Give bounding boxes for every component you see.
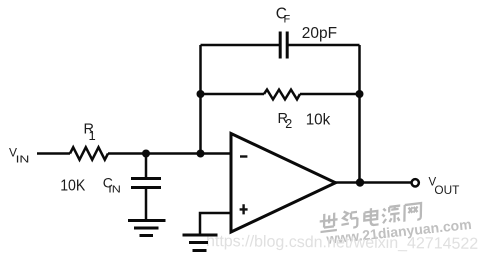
svg-text:https://blog.csdn.net/weixin_4: https://blog.csdn.net/weixin_42714522 bbox=[206, 233, 478, 253]
svg-text:IN: IN bbox=[16, 153, 30, 165]
svg-text:20pF: 20pF bbox=[302, 25, 337, 42]
svg-text:10K: 10K bbox=[60, 177, 86, 194]
svg-text:10k: 10k bbox=[306, 112, 332, 129]
svg-text:IN: IN bbox=[108, 184, 121, 196]
svg-text:2: 2 bbox=[285, 117, 292, 131]
svg-text:OUT: OUT bbox=[434, 185, 459, 197]
svg-text:1: 1 bbox=[89, 128, 96, 143]
svg-text:F: F bbox=[284, 14, 291, 26]
